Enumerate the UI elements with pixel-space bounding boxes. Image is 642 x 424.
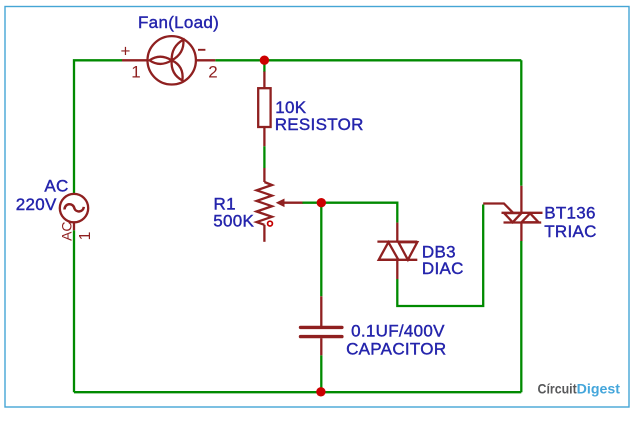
svg-text:AC: AC	[44, 177, 68, 196]
wire junction down to capacitor green	[320, 203, 322, 297]
wire resistor to pot green	[263, 146, 265, 168]
AC source 220V	[60, 194, 88, 230]
svg-text:0.1UF/400V: 0.1UF/400V	[351, 321, 445, 340]
potentiometer pin 1 marker circle	[268, 221, 273, 226]
wire capacitor to bottom green	[320, 355, 322, 392]
resistor 10K body	[258, 88, 270, 127]
triac BT136	[483, 186, 542, 241]
svg-text:BT136: BT136	[544, 203, 596, 222]
svg-text:DIAC: DIAC	[422, 259, 464, 278]
wire top-left green segment	[74, 60, 122, 194]
capacitor 0.1UF	[301, 296, 342, 355]
potentiometer R1	[257, 168, 272, 242]
resistor 10K leads	[263, 72, 265, 147]
node junction dot top	[260, 56, 269, 65]
svg-text:TRIAC: TRIAC	[544, 222, 597, 241]
wire right lower green	[520, 241, 522, 392]
diac DB3	[377, 223, 417, 279]
svg-text:Digest: Digest	[577, 381, 621, 397]
wire right upper green	[520, 60, 522, 186]
wire dot to resistor green stub	[263, 60, 265, 72]
svg-text:Fan(Load): Fan(Load)	[138, 13, 219, 32]
svg-text:Círcuit: Círcuit	[538, 381, 577, 397]
wire junction to diac top green	[321, 203, 397, 223]
fan Fan(Load)	[122, 36, 215, 84]
wire diac bottom to triac gate green	[397, 205, 483, 307]
potentiometer wiper arrow	[276, 199, 285, 208]
svg-text:AC: AC	[58, 221, 74, 240]
svg-text:+: +	[121, 42, 131, 61]
svg-text:1: 1	[131, 63, 140, 82]
svg-text:1: 1	[77, 232, 94, 241]
wire wiper to junction green	[302, 202, 321, 204]
svg-text:220V: 220V	[16, 195, 57, 214]
wire top right green	[215, 59, 521, 61]
svg-text:RESISTOR: RESISTOR	[275, 115, 364, 134]
node junction dot wiper	[317, 198, 326, 207]
fan pin label minus	[198, 49, 205, 51]
potentiometer wiper lead	[284, 202, 303, 204]
svg-text:500K: 500K	[213, 212, 254, 231]
svg-text:2: 2	[208, 63, 217, 82]
wire bottom green	[74, 391, 521, 393]
wire left lower green segment	[73, 230, 75, 392]
svg-text:CAPACITOR: CAPACITOR	[346, 340, 446, 359]
node junction dot bottom	[316, 387, 325, 396]
